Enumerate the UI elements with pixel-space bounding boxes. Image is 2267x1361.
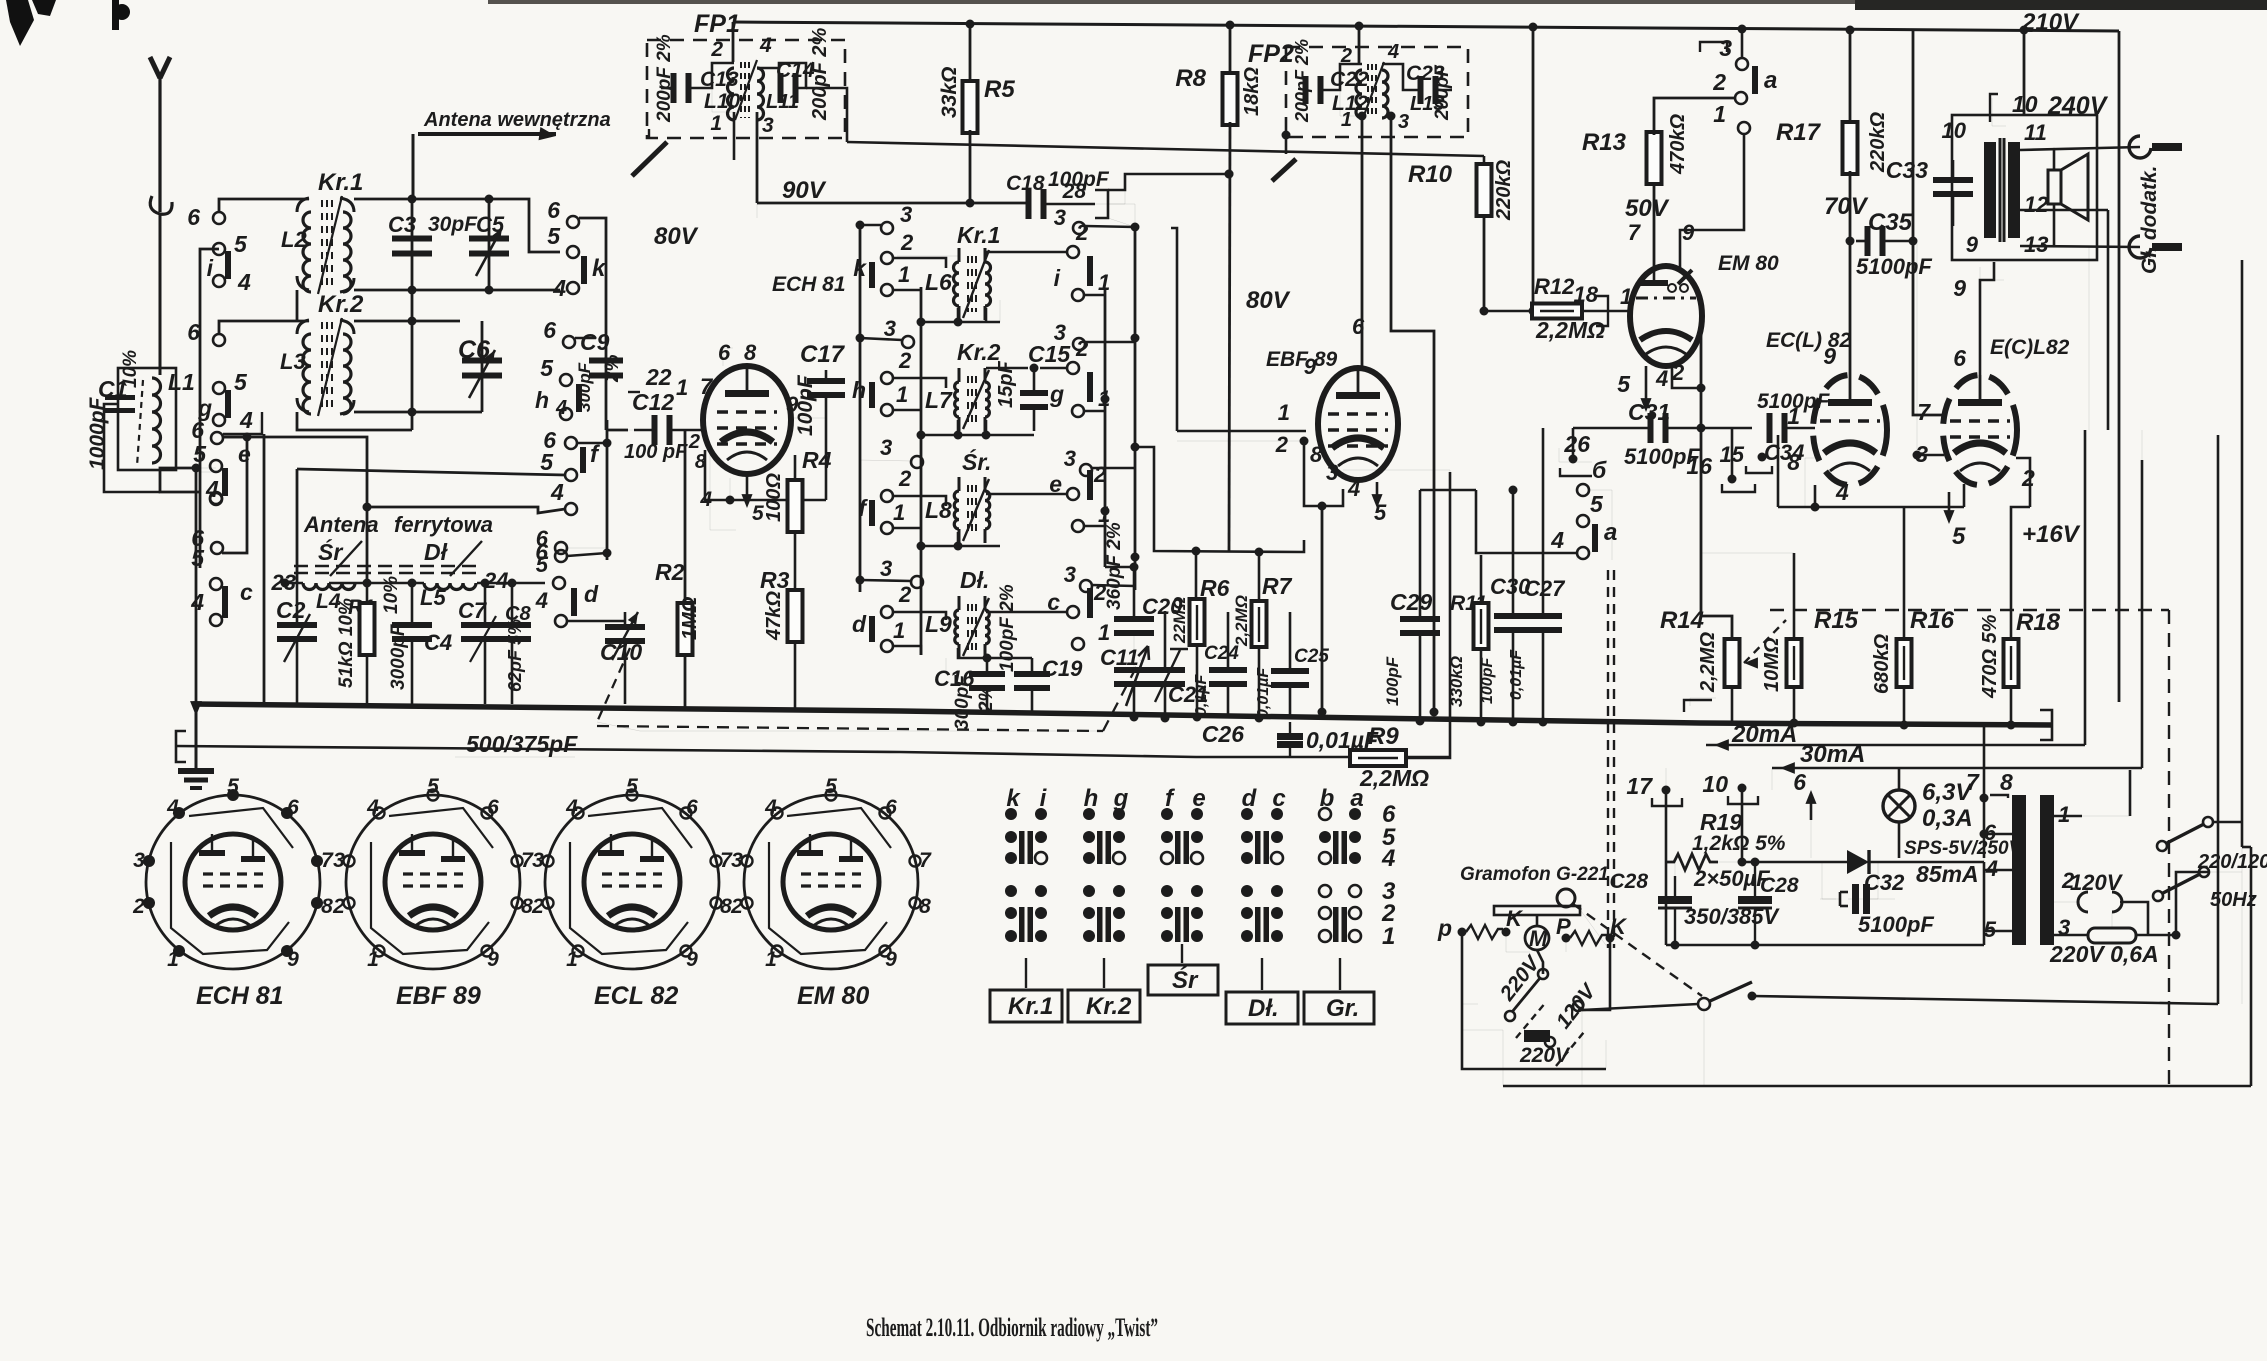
transformer FP2 coils L12 L13 — [1356, 70, 1362, 118]
wire IF inner right rail — [1104, 290, 1107, 567]
svg-text:500/375pF: 500/375pF — [466, 731, 578, 757]
switch stroke FP1 — [632, 142, 667, 176]
wafer group f-e contacts — [1161, 808, 1173, 820]
svg-text:100pF: 100pF — [1383, 656, 1402, 706]
svg-text:1: 1 — [566, 948, 578, 971]
svg-text:C17: C17 — [800, 341, 846, 368]
variable capacitor C10 — [624, 612, 627, 624]
svg-text:ECL 82: ECL 82 — [594, 982, 678, 1010]
wire antenna to L1 — [159, 214, 162, 375]
svg-text:10: 10 — [1942, 118, 1967, 143]
wire a1 to EM80 pin9 — [1680, 134, 1744, 268]
svg-text:L1: L1 — [168, 369, 195, 395]
svg-text:1: 1 — [710, 112, 722, 135]
ground bus thick — [193, 704, 2052, 725]
svg-text:4: 4 — [552, 275, 566, 301]
bracket over bus left of R14 — [1690, 698, 1716, 706]
svg-text:7: 7 — [1917, 399, 1931, 425]
wire IF left rail — [859, 225, 862, 592]
svg-text:g: g — [1049, 381, 1064, 407]
svg-text:10MΩ: 10MΩ — [1761, 637, 1783, 692]
svg-text:EC(L) 82: EC(L) 82 — [1766, 329, 1852, 352]
wire 28 to R8 junction — [1108, 174, 1229, 190]
svg-text:Śr: Śr — [318, 538, 343, 565]
svg-text:100pF: 100pF — [794, 374, 817, 436]
svg-text:4: 4 — [1381, 845, 1395, 872]
wires transformer to terminals — [2020, 147, 2140, 150]
ferrite rod core dashed — [294, 565, 483, 568]
svg-text:90V: 90V — [782, 177, 827, 204]
svg-text:h: h — [1084, 785, 1099, 812]
svg-text:10: 10 — [1702, 771, 1728, 797]
svg-text:1MΩ: 1MΩ — [679, 596, 701, 640]
svg-text:0,01µF: 0,01µF — [1255, 667, 1272, 718]
svg-text:5: 5 — [1984, 917, 1997, 942]
wire 240V from top rail — [2023, 30, 2026, 115]
svg-text:5: 5 — [193, 441, 207, 467]
svg-text:6: 6 — [1953, 345, 1966, 371]
svg-text:1: 1 — [1098, 620, 1110, 645]
wire EBF89 pin2 — [1300, 437, 1309, 446]
wire L7 bottom — [921, 434, 1034, 437]
svg-text:R4: R4 — [802, 447, 832, 473]
svg-text:5: 5 — [234, 231, 248, 257]
svg-text:3: 3 — [333, 849, 345, 872]
svg-text:3: 3 — [762, 114, 774, 137]
wire FP2 pin1 down to EBF89 pin6 — [1358, 112, 1367, 121]
svg-text:8: 8 — [744, 340, 757, 365]
wires IF tops and bottoms — [897, 255, 958, 257]
wire pentode pin3 — [1917, 454, 1944, 457]
wire C31 line — [1573, 427, 1652, 430]
svg-text:4: 4 — [1655, 366, 1668, 391]
svg-text:2,2MΩ: 2,2MΩ — [1232, 595, 1251, 647]
svg-text:5: 5 — [540, 355, 554, 381]
wire power box bottom — [1666, 944, 1984, 947]
coupling coil L1 — [118, 368, 176, 470]
tap block 220V — [1524, 1030, 1550, 1042]
chassis bracket left — [176, 731, 186, 762]
svg-text:3: 3 — [900, 202, 912, 227]
wire e6 horizontal to ferrite — [223, 437, 367, 507]
wire k to L6 — [893, 258, 946, 268]
svg-text:9: 9 — [1682, 220, 1695, 245]
svg-text:2: 2 — [132, 895, 145, 918]
svg-text:10%: 10% — [120, 350, 141, 388]
svg-text:240V: 240V — [2047, 92, 2109, 120]
svg-text:300pF: 300pF — [575, 362, 594, 412]
svg-text:L11: L11 — [766, 91, 799, 113]
mains switch — [1698, 998, 1710, 1010]
contact k — [567, 246, 579, 258]
svg-text:2×50µF: 2×50µF — [1693, 866, 1770, 891]
svg-text:c: c — [1272, 785, 1285, 812]
wafer group b-a contacts — [1319, 808, 1331, 820]
wires switches right — [2213, 430, 2242, 822]
wire h to L7 — [893, 378, 946, 388]
svg-text:1: 1 — [893, 618, 905, 643]
svg-text:1: 1 — [676, 375, 688, 400]
svg-text:1: 1 — [1278, 400, 1290, 425]
svg-text:p: p — [1437, 915, 1452, 941]
resistor R5 33k — [969, 24, 972, 84]
output transformer windings — [1984, 142, 1996, 238]
wire from contact 5 left down — [200, 249, 219, 568]
band label box Dl — [1261, 958, 1263, 990]
wire a3 to top rail — [1741, 29, 1744, 58]
svg-text:7: 7 — [1966, 769, 1980, 795]
svg-text:3: 3 — [884, 316, 896, 341]
wire IF right rail — [1134, 227, 1137, 590]
capacitor C23 200pF 2% — [1418, 76, 1439, 104]
svg-text:a: a — [1350, 785, 1363, 812]
capacitor C4 3000pF 10% — [411, 583, 414, 624]
svg-text:1: 1 — [167, 948, 179, 971]
svg-text:Kr.2: Kr.2 — [318, 291, 364, 318]
svg-text:330kΩ: 330kΩ — [1447, 656, 1466, 707]
diode SPS — [1847, 850, 1869, 874]
trimmer C21 — [1164, 611, 1167, 668]
capacitor C20 360pF 2% — [1105, 566, 1134, 569]
wire e6 to lower 6 — [222, 437, 247, 553]
wire fuse to socket arc — [2111, 912, 2113, 928]
svg-text:28: 28 — [1062, 180, 1087, 203]
svg-text:5: 5 — [234, 369, 248, 395]
wire f5 line — [297, 469, 565, 475]
band label box Kr.1 — [1025, 958, 1027, 988]
svg-text:Kr.1: Kr.1 — [318, 169, 363, 196]
wire C1 to e-contact — [160, 468, 196, 470]
wire ECH81 cathode arrow 5 — [746, 474, 749, 500]
svg-text:R3: R3 — [760, 567, 790, 593]
svg-text:2,2MΩ: 2,2MΩ — [1697, 632, 1719, 693]
svg-text:2: 2 — [900, 230, 914, 255]
svg-text:2: 2 — [898, 582, 912, 607]
svg-text:2: 2 — [1275, 432, 1289, 457]
svg-text:3: 3 — [731, 849, 743, 872]
wafer group d-c contacts — [1241, 808, 1253, 820]
svg-text:80V: 80V — [1246, 287, 1291, 314]
svg-text:SPS-5V/250V: SPS-5V/250V — [1904, 838, 2023, 859]
svg-text:6: 6 — [187, 319, 200, 345]
arrow +16V — [1948, 492, 1951, 516]
switch 50Hz lower — [2153, 891, 2163, 901]
svg-text:2: 2 — [531, 895, 544, 918]
svg-text:R16: R16 — [1910, 607, 1955, 634]
transformer FP1 coils L10 L11 — [728, 68, 735, 120]
svg-text:200pF: 200pF — [1432, 64, 1453, 121]
wire FP2 pin2 to top rail — [1358, 26, 1361, 64]
svg-text:ferrytowa: ferrytowa — [394, 512, 493, 537]
wire C32 connections — [1848, 862, 1878, 899]
svg-text:6: 6 — [191, 417, 204, 443]
svg-text:30pF: 30pF — [428, 213, 478, 236]
svg-text:1: 1 — [765, 948, 777, 971]
switch 220/120V upper — [2157, 841, 2167, 851]
wire EM80 pin5 arrow — [1645, 366, 1648, 404]
svg-text:200pF 2%: 200pF 2% — [1292, 39, 1312, 123]
svg-text:4: 4 — [759, 34, 772, 57]
svg-text:1: 1 — [1098, 270, 1110, 295]
wire EBF89 arrow 5 — [1376, 482, 1379, 502]
svg-text:51kΩ 10%: 51kΩ 10% — [336, 598, 357, 688]
wire C9 to C12 junction 22 — [606, 388, 634, 430]
svg-text:3: 3 — [1398, 111, 1409, 133]
svg-text:Kr.2: Kr.2 — [957, 339, 1001, 365]
wire power box left — [1665, 790, 1668, 945]
svg-text:70V: 70V — [1824, 193, 1869, 220]
svg-text:7: 7 — [919, 849, 932, 872]
svg-text:100 pF: 100 pF — [624, 441, 688, 463]
svg-text:47kΩ: 47kΩ — [763, 591, 785, 641]
svg-text:d: d — [852, 611, 867, 637]
svg-text:Śr.: Śr. — [962, 448, 991, 475]
svg-text:a: a — [1764, 67, 1777, 94]
wire b to EBF89 row — [1589, 490, 1612, 560]
wire FP1 pin1 down — [733, 112, 736, 160]
svg-text:6: 6 — [536, 526, 549, 551]
bus end bracket — [2040, 710, 2052, 740]
svg-text:12: 12 — [2024, 192, 2049, 217]
wire FP1 to R10 — [847, 142, 1484, 156]
wire 28 bracket to rail — [1095, 204, 1135, 227]
wire internal antenna down — [412, 134, 415, 199]
wire switch lower vertical — [1581, 1010, 1583, 1086]
svg-text:2: 2 — [2021, 465, 2035, 491]
svg-text:3: 3 — [1054, 205, 1066, 230]
dashed double line to gramofon — [1607, 570, 1609, 948]
svg-text:C33: C33 — [1886, 157, 1928, 183]
svg-text:8: 8 — [919, 895, 931, 918]
svg-text:R17: R17 — [1776, 119, 1822, 146]
svg-text:2: 2 — [710, 38, 723, 61]
wire R19 row — [1718, 861, 1742, 863]
svg-text:g: g — [1113, 785, 1129, 812]
svg-text:1000pF: 1000pF — [86, 396, 109, 470]
wire transformer 9 down — [1993, 262, 1995, 280]
wire ferrite mid — [329, 582, 424, 585]
svg-text:0,01µF: 0,01µF — [1508, 649, 1525, 700]
svg-text:4: 4 — [535, 588, 548, 613]
svg-text:1: 1 — [1620, 284, 1632, 309]
svg-text:5: 5 — [825, 775, 837, 798]
svg-text:1: 1 — [898, 262, 910, 287]
svg-text:18: 18 — [1574, 282, 1599, 307]
svg-text:80V: 80V — [654, 223, 699, 250]
FP2 inner wires — [1319, 64, 1362, 90]
svg-text:d: d — [1242, 785, 1258, 812]
svg-text:EBF 89: EBF 89 — [396, 982, 481, 1010]
svg-text:9: 9 — [885, 948, 897, 971]
svg-text:L3: L3 — [280, 349, 306, 374]
svg-text:220V: 220V — [1519, 1044, 1571, 1067]
wire R13 to EM80 pin7 — [1653, 182, 1656, 268]
svg-text:C12: C12 — [632, 389, 674, 415]
svg-text:9: 9 — [287, 948, 299, 971]
svg-text:4: 4 — [764, 796, 777, 819]
svg-text:3: 3 — [1326, 460, 1338, 485]
wire d wires — [893, 612, 946, 620]
wires to e and c contacts — [223, 412, 262, 434]
svg-text:d: d — [584, 581, 599, 607]
svg-text:2: 2 — [898, 466, 912, 491]
svg-text:C29: C29 — [1390, 589, 1432, 615]
svg-text:L9: L9 — [925, 611, 952, 637]
svg-text:100Ω: 100Ω — [763, 473, 785, 522]
svg-text:6: 6 — [187, 204, 200, 230]
svg-text:5: 5 — [1590, 491, 1604, 517]
svg-text:R15: R15 — [1814, 607, 1859, 634]
tube socket EBF 89 — [346, 795, 520, 969]
svg-text:C22: C22 — [1330, 68, 1369, 91]
svg-text:6: 6 — [547, 197, 560, 223]
wire R15 top — [1701, 552, 1794, 554]
wire x607 vertical — [606, 420, 609, 560]
motor power wires — [1462, 1003, 1478, 1005]
band label box Kr.2 — [1103, 958, 1105, 988]
svg-text:6: 6 — [885, 796, 897, 819]
terminal Gl dodatk lower — [2129, 236, 2151, 258]
svg-text:Kr.2: Kr.2 — [1086, 993, 1132, 1020]
svg-text:R12: R12 — [1534, 274, 1575, 299]
svg-text:8: 8 — [321, 895, 333, 918]
svg-text:EM 80: EM 80 — [1718, 252, 1779, 275]
svg-text:2%: 2% — [602, 354, 623, 383]
wire Kr.2 top — [219, 321, 309, 334]
bracket contact a — [1700, 42, 1727, 52]
wire C31 corner to 16 bracket — [1731, 428, 1734, 475]
svg-text:100pF: 100pF — [1479, 657, 1496, 704]
svg-text:1: 1 — [1382, 923, 1395, 950]
svg-text:4: 4 — [237, 269, 251, 295]
capacitor C14 200pF 2% — [778, 73, 799, 103]
svg-text:Dł: Dł — [424, 539, 449, 565]
wire FP1 pin2 to top rail — [732, 22, 735, 62]
svg-text:4: 4 — [1387, 41, 1399, 63]
svg-text:6: 6 — [1352, 314, 1365, 339]
svg-text:L7: L7 — [925, 387, 953, 413]
svg-text:1: 1 — [2058, 802, 2070, 827]
svg-text:2: 2 — [1093, 462, 1107, 487]
svg-text:200pF 2%: 200pF 2% — [809, 28, 831, 121]
svg-text:62pF 5%: 62pF 5% — [505, 619, 525, 692]
svg-text:E(C)L82: E(C)L82 — [1990, 336, 2070, 359]
svg-text:C25: C25 — [1294, 646, 1329, 667]
svg-text:б: б — [1592, 457, 1607, 483]
coil L5 — [424, 583, 476, 590]
wire L6 bottom — [921, 321, 1000, 324]
wire FP2 pin3 down — [1387, 112, 1396, 121]
svg-text:C35: C35 — [1868, 209, 1913, 236]
svg-text:i: i — [207, 255, 214, 281]
svg-text:Gł. dodatk.: Gł. dodatk. — [2138, 165, 2161, 274]
svg-text:3: 3 — [1054, 320, 1066, 345]
wire ECH81 pins — [723, 348, 733, 366]
svg-text:3: 3 — [532, 849, 544, 872]
svg-text:6: 6 — [1793, 769, 1806, 795]
svg-text:6: 6 — [686, 796, 698, 819]
wire switch to right — [1752, 996, 2218, 1004]
svg-text:3: 3 — [133, 849, 145, 872]
svg-text:c: c — [240, 579, 253, 605]
svg-text:i: i — [1054, 265, 1061, 291]
terminal Gl dodatk upper — [2129, 136, 2151, 158]
svg-text:a: a — [1604, 519, 1617, 546]
wire R8 down to R6 row — [1229, 122, 1230, 551]
svg-text:L2: L2 — [281, 227, 307, 252]
output transformer box — [1952, 115, 2097, 260]
scan artifact top band — [488, 0, 1858, 4]
svg-text:6: 6 — [487, 796, 499, 819]
svg-text:5: 5 — [536, 552, 549, 577]
svg-text:1: 1 — [1341, 109, 1352, 131]
switch stroke FP2 — [1282, 131, 1291, 140]
svg-text:50V: 50V — [1625, 195, 1670, 222]
svg-text:0,1µF: 0,1µF — [1193, 674, 1210, 716]
svg-text:1: 1 — [896, 382, 908, 407]
svg-text:R2: R2 — [655, 559, 685, 585]
wire transformer primary 1 up — [2129, 770, 2132, 816]
wire EBF89 y551 row — [1135, 447, 1304, 552]
svg-text:9: 9 — [487, 948, 499, 971]
svg-text:C2: C2 — [276, 597, 306, 623]
wire Kr.2 bottom — [297, 412, 412, 430]
wire left column vertical — [195, 468, 198, 704]
wire L1 to switch column — [160, 470, 200, 492]
svg-text:4: 4 — [366, 796, 379, 819]
svg-text:17: 17 — [1626, 773, 1653, 799]
svg-text:R8: R8 — [1175, 65, 1206, 92]
wire pentode pin6 up — [1980, 262, 1994, 375]
svg-text:30mA: 30mA — [1800, 741, 1865, 768]
svg-text:C26: C26 — [1202, 721, 1244, 747]
svg-text:2: 2 — [730, 895, 743, 918]
svg-text:85mA: 85mA — [1916, 861, 1979, 887]
wire pins row y507 — [1778, 506, 1964, 509]
svg-text:C7: C7 — [458, 598, 488, 623]
svg-text:1: 1 — [1787, 403, 1800, 429]
svg-text:K: K — [1506, 906, 1524, 931]
svg-text:e: e — [238, 441, 251, 467]
wire R18 top from pentode pin2 — [2011, 507, 2030, 545]
svg-text:C24: C24 — [1204, 643, 1239, 664]
svg-text:33kΩ: 33kΩ — [938, 67, 961, 118]
svg-text:8: 8 — [1787, 449, 1800, 475]
FP1 inner wiring — [661, 87, 673, 90]
svg-text:Śr: Śr — [1172, 966, 1199, 994]
svg-text:Gr.: Gr. — [1326, 995, 1359, 1022]
pickup connector — [1557, 889, 1575, 907]
wire Kr.1 bottom — [296, 290, 299, 322]
svg-text:7: 7 — [1628, 220, 1642, 245]
svg-text:6: 6 — [543, 317, 556, 343]
band label box Sr — [1181, 944, 1183, 963]
svg-text:R10: R10 — [1408, 161, 1453, 188]
wire switch to bottom rail — [2241, 847, 2243, 1004]
svg-text:3: 3 — [880, 435, 892, 460]
wire ECL82 pin8 pin4 — [1805, 458, 1815, 506]
wire L8 bottom — [921, 545, 1000, 548]
wire e contacts — [215, 437, 217, 439]
svg-text:4: 4 — [565, 796, 578, 819]
lamp 6.3V 0.3A — [1883, 790, 1915, 822]
pickup bar — [1494, 906, 1580, 915]
svg-text:210V: 210V — [2021, 9, 2080, 36]
svg-text:4: 4 — [205, 476, 219, 502]
wire EBF89 pin1 grid — [1177, 430, 1306, 433]
contact b 26 — [1572, 428, 1575, 455]
wire pentode pin2 right — [2016, 458, 2030, 507]
